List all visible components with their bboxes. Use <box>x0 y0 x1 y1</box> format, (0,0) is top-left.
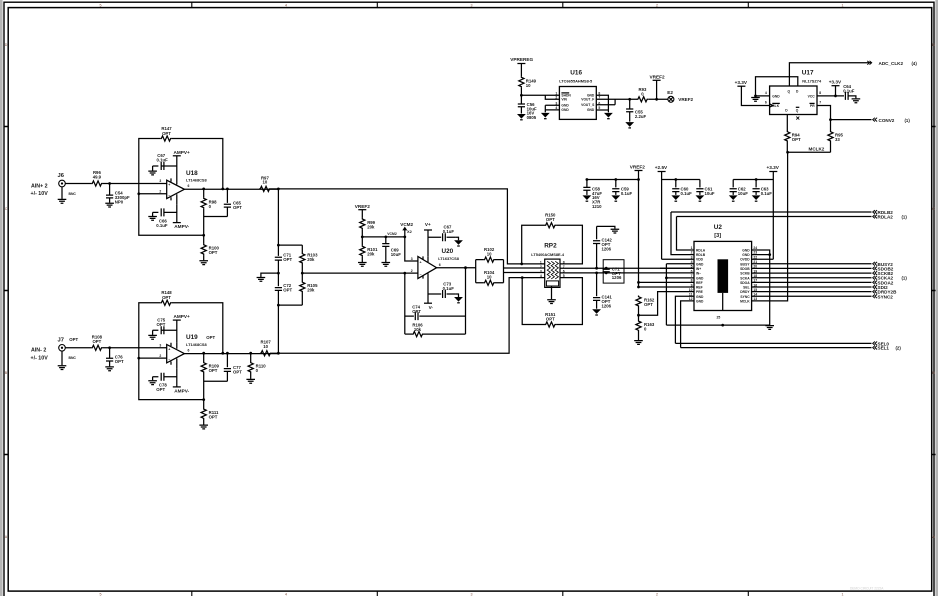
svg-text:4: 4 <box>765 91 767 95</box>
wire U2 pin12 SEL1 <box>681 301 694 348</box>
ground at C62 <box>729 195 738 200</box>
svg-text:IN−: IN− <box>696 272 701 276</box>
wire C63 stem <box>755 180 757 188</box>
svg-text:+/- 10V: +/- 10V <box>31 191 49 197</box>
svg-text:1206: 1206 <box>612 275 622 280</box>
junction VREF2 rail <box>637 178 640 181</box>
svg-text:[3]: [3] <box>714 233 721 239</box>
junction C59 <box>614 178 617 181</box>
wire C78 ground stem <box>152 377 154 381</box>
svg-text:AIN- 2: AIN- 2 <box>31 348 46 354</box>
ground at RP2 pad <box>547 300 556 304</box>
wire VPREREG to R149 <box>520 64 522 77</box>
junction R98 top <box>202 188 205 191</box>
svg-text:20k: 20k <box>307 257 315 262</box>
wire U2 gnd rail <box>666 324 769 326</box>
ground at C55 <box>625 122 634 127</box>
svg-text:D: D <box>5 43 8 47</box>
wire J7 to R108 <box>65 347 91 349</box>
svg-text:BUSY: BUSY <box>740 262 750 266</box>
svg-text:3: 3 <box>411 257 413 261</box>
svg-text:0.1uF: 0.1uF <box>761 191 773 196</box>
svg-text:25: 25 <box>717 315 721 319</box>
svg-text:GND: GND <box>561 104 569 108</box>
junction R100 top <box>202 234 205 237</box>
wire U2 pin24 GND <box>752 250 770 325</box>
resistor R106 <box>412 322 424 336</box>
svg-text:MCLK2: MCLK2 <box>809 147 825 152</box>
junction U19 -input feedback <box>137 357 140 360</box>
junction U20 fb right <box>464 266 467 269</box>
resistor R111 <box>201 408 219 420</box>
svg-text:10: 10 <box>263 344 268 349</box>
net arrow SCKA2 <box>873 276 877 280</box>
svg-text:OPT: OPT <box>792 137 801 142</box>
svg-text:SYNC2: SYNC2 <box>878 294 894 299</box>
svg-text:GND: GND <box>696 262 704 266</box>
wire U2 pin5 IN+ <box>660 267 694 269</box>
wire U2 pin23 GND <box>752 254 770 256</box>
svg-text:V+: V+ <box>425 222 431 227</box>
junction C58 <box>586 178 589 181</box>
wire R100 ground stem <box>203 255 205 260</box>
wire +3.3V rail <box>733 172 773 260</box>
wire C63 gnd stem <box>755 192 757 195</box>
wire C74 row <box>405 315 466 317</box>
svg-text:10uF: 10uF <box>738 191 748 196</box>
svg-text:U18: U18 <box>186 170 198 177</box>
wire R105 top <box>301 273 303 281</box>
junction C71 bottom <box>605 272 608 275</box>
svg-text:(1): (1) <box>902 215 908 220</box>
net arrow ADC_CLK2 <box>867 61 871 65</box>
svg-text:CLK: CLK <box>772 104 779 108</box>
junction cap mid ground <box>277 272 280 275</box>
wire U18 output <box>184 188 278 190</box>
wire C54 to ground <box>109 198 111 203</box>
svg-text:5: 5 <box>100 593 102 596</box>
svg-text:CONV2: CONV2 <box>879 118 895 123</box>
svg-text:0805: 0805 <box>527 115 537 120</box>
wire R109 top <box>203 353 205 361</box>
svg-text:LTC6655AHMS8-5: LTC6655AHMS8-5 <box>559 78 593 83</box>
svg-text:SCKB: SCKB <box>740 272 750 276</box>
border zone ticks top <box>192 2 749 7</box>
wire C142 bottom <box>596 244 598 269</box>
net SCKA2 line <box>752 277 872 279</box>
svg-text:OPT: OPT <box>209 250 218 255</box>
resistor R109 <box>201 362 219 374</box>
svg-text:GND: GND <box>742 248 750 252</box>
junction C142 on IN+ <box>595 267 598 270</box>
resistor R102 <box>483 247 495 262</box>
junction RP2 pin1 loop <box>520 263 523 266</box>
capacitor C142 <box>593 238 612 252</box>
svg-text:7: 7 <box>819 101 821 105</box>
svg-text:GND: GND <box>742 253 750 257</box>
ground at C63 <box>752 195 761 200</box>
svg-text:2: 2 <box>656 593 658 596</box>
capacitor C76 <box>106 355 124 364</box>
svg-text:GND: GND <box>587 108 595 112</box>
capacitor C64 <box>843 84 855 100</box>
junction R147 to output <box>221 188 224 191</box>
junction C54 tap <box>108 182 111 185</box>
power +3.3V at CLK <box>735 80 748 86</box>
svg-text:10uF: 10uF <box>705 191 715 196</box>
net AMPV- U19 <box>173 386 181 388</box>
ground at C67 <box>148 171 157 175</box>
page edge shading right <box>935 0 938 596</box>
junction R111 top <box>202 398 205 401</box>
op-amp U18 <box>159 170 207 205</box>
wire U2 pin9 REF <box>639 286 695 288</box>
svg-text:AMPV-: AMPV- <box>174 389 189 394</box>
junction pin23 gnd <box>768 253 771 256</box>
svg-text:OPT: OPT <box>92 339 101 344</box>
svg-text:RP2: RP2 <box>544 242 557 249</box>
svg-text:GND: GND <box>696 295 704 299</box>
resistor R94 <box>785 131 801 143</box>
wire U16 gnd pins <box>545 105 559 112</box>
junction MCLK2 <box>786 151 789 154</box>
wire R162 to R163 <box>638 307 640 320</box>
ground at R163 <box>634 341 643 345</box>
wire U19 output <box>184 353 278 355</box>
svg-text:OPT: OPT <box>162 295 171 300</box>
wire C60 gnd stem <box>675 192 677 195</box>
wire RP2 pin7 out <box>560 267 694 269</box>
svg-text:10k: 10k <box>414 327 422 332</box>
wire +2.5V rail <box>662 172 700 260</box>
ground at U2 <box>765 326 774 330</box>
svg-text:3: 3 <box>159 179 161 183</box>
resistor R147 <box>160 126 172 141</box>
svg-text:GND: GND <box>696 300 704 304</box>
wire R100 top <box>203 235 205 243</box>
svg-text:SCKA: SCKA <box>740 276 750 280</box>
capacitor C78 <box>156 373 167 392</box>
svg-text:Q: Q <box>796 109 799 113</box>
wire C72 bottom <box>277 290 279 305</box>
svg-text:VIN: VIN <box>561 98 567 102</box>
wire U2 pin10 PRE <box>639 292 695 316</box>
junction C55 tap <box>628 98 631 101</box>
wire C71 top <box>277 245 279 256</box>
svg-text:6: 6 <box>691 269 693 273</box>
wire AMPV- rail U19 <box>176 369 178 387</box>
ADC U2 <box>694 224 752 319</box>
wire C78 lead <box>153 376 177 378</box>
svg-text:0.1uF: 0.1uF <box>443 229 455 234</box>
svg-text:X2: X2 <box>407 229 413 234</box>
ground at J6 <box>58 199 67 203</box>
wire U2 pin3 VDD <box>662 258 694 260</box>
wire U16 vout <box>596 99 637 104</box>
net arrow SEL0 <box>873 342 877 346</box>
ground at C76 <box>105 367 114 371</box>
svg-text:10uF: 10uF <box>391 252 401 257</box>
ground at R110 <box>246 379 255 383</box>
svg-text:LT1468CS8: LT1468CS8 <box>186 178 208 183</box>
svg-text:2: 2 <box>411 269 413 273</box>
wire C56 stem <box>520 95 522 104</box>
ground at C142 <box>611 229 620 233</box>
capacitor C60 <box>672 186 692 195</box>
ground at C78 <box>148 381 157 385</box>
net arrow SCKB2 <box>873 271 877 275</box>
net V+ U20 <box>424 222 432 230</box>
wire C68 gnd stem <box>456 237 459 240</box>
wire U17 VCC <box>817 95 844 97</box>
wire to RP2 pin2 <box>504 267 545 269</box>
junction divider mid tap <box>301 272 304 275</box>
junction VCM2 stub <box>403 236 406 239</box>
junction U2 gnd pins <box>665 277 668 280</box>
svg-text:SDOA: SDOA <box>740 281 750 285</box>
junction VREF2 stub <box>655 98 658 101</box>
ground at C59 <box>611 195 620 200</box>
wire VCM2 to +input <box>405 237 418 261</box>
svg-text:4: 4 <box>555 106 557 110</box>
capacitor C59 <box>612 186 632 195</box>
svg-text:6: 6 <box>765 101 767 105</box>
svg-text:OPT: OPT <box>157 322 166 327</box>
wire U2 pin22 OVDD <box>752 258 774 260</box>
connector J7 <box>58 337 79 360</box>
junction PR node <box>829 118 832 121</box>
svg-text:VREF2: VREF2 <box>355 204 371 209</box>
wire C69 top <box>385 237 387 244</box>
svg-text:10: 10 <box>487 275 492 280</box>
svg-text:SDOB: SDOB <box>740 267 750 271</box>
net VREF2 at divider <box>355 204 371 210</box>
svg-text:+3.3V: +3.3V <box>767 165 780 170</box>
wire mid tap to U20 -input <box>302 272 418 274</box>
svg-text:D: D <box>932 43 935 47</box>
ground at C141 <box>592 309 601 314</box>
wire to RP2 pin3 <box>504 272 545 274</box>
ground at C54 <box>105 203 114 207</box>
wire U17 Q to ADC_CLK2 <box>789 63 871 86</box>
capacitor C72 <box>275 283 293 293</box>
wire U17 pin2 down <box>786 115 788 131</box>
svg-text:33: 33 <box>835 137 840 142</box>
svg-text:+3.3V: +3.3V <box>829 79 842 84</box>
capacitor C74 <box>412 304 421 320</box>
wire C77 top <box>226 353 228 367</box>
wire node to U16 pins <box>521 95 559 99</box>
svg-text:4: 4 <box>285 3 287 7</box>
wire U20 V+ stem <box>427 230 429 256</box>
ground at C64 <box>852 99 861 103</box>
wire R103 bottom <box>301 264 303 273</box>
svg-text:20k: 20k <box>367 252 375 257</box>
wire C61 gnd stem <box>699 192 701 195</box>
capacitor C67 <box>157 153 169 170</box>
svg-text:4: 4 <box>285 593 287 596</box>
svg-text:VREF2: VREF2 <box>630 165 646 170</box>
net BUSY2 line <box>752 263 872 265</box>
wire C55 gnd stem <box>629 112 631 122</box>
wire R110 ground stem <box>250 373 252 379</box>
svg-text:OPT: OPT <box>206 335 215 340</box>
junction U18 -input feedback <box>137 192 140 195</box>
wire C64 gnd lead <box>848 96 856 99</box>
resistor R108 <box>91 335 103 351</box>
ground at C56 <box>517 114 526 119</box>
svg-text:1210: 1210 <box>592 204 602 209</box>
net SEL1 line <box>681 347 872 349</box>
capacitor C61 <box>696 186 715 195</box>
wire R106 row right <box>424 333 466 335</box>
svg-text:SEL: SEL <box>743 286 749 290</box>
svg-text:OPT: OPT <box>162 131 171 136</box>
svg-text:−: − <box>420 273 422 277</box>
wire U20 fb right leg <box>465 268 467 334</box>
wire U18 feedback top right <box>172 139 223 189</box>
capacitor C68 <box>443 225 455 242</box>
net arrow BUSY2 <box>873 262 877 266</box>
svg-text:VOUT_S: VOUT_S <box>581 103 595 107</box>
wire R109 bottom rail <box>204 373 228 400</box>
capacitor C66 <box>156 208 168 227</box>
net arrow CONV2 <box>873 118 877 122</box>
capacitor C73 <box>443 281 455 298</box>
wire C76 to ground <box>109 361 111 366</box>
net VREF2 rail <box>630 165 646 171</box>
wire AMPV+ rail U19 <box>176 320 178 342</box>
capacitor C75 <box>157 318 166 335</box>
wire U18 -input <box>139 193 167 195</box>
ground at divider mid <box>257 278 266 282</box>
svg-text:−: − <box>168 194 170 198</box>
svg-text:OPT: OPT <box>233 205 242 210</box>
border zone ticks bottom <box>192 591 749 596</box>
svg-text:0.1uF: 0.1uF <box>443 286 455 291</box>
svg-text:OPT: OPT <box>412 309 421 314</box>
ground at U17 <box>751 98 760 102</box>
svg-text:2: 2 <box>656 3 658 7</box>
wire R99 to VCM2 node <box>361 229 363 237</box>
svg-text:U19: U19 <box>186 334 198 341</box>
wire U17 D loop <box>756 77 798 96</box>
svg-text:20k: 20k <box>367 224 375 229</box>
net arrow SEL1 <box>873 346 877 350</box>
svg-text:Q: Q <box>788 90 791 94</box>
svg-text:AMPV+: AMPV+ <box>174 150 191 155</box>
svg-text:RDLA: RDLA <box>696 248 706 252</box>
wire VREF2 vertical <box>638 171 640 288</box>
net V- U20 <box>424 302 432 304</box>
resistor R163 <box>636 320 655 332</box>
svg-text:2: 2 <box>159 190 161 194</box>
wire R98 top <box>203 189 205 197</box>
wire R98 bottom rail <box>204 209 228 236</box>
svg-text:RDLA2: RDLA2 <box>878 215 894 220</box>
svg-text:0.1uF: 0.1uF <box>157 158 169 163</box>
resistor R149 <box>519 76 537 88</box>
net RDLA2 line <box>677 216 872 218</box>
net VREF2 at U16 <box>650 74 666 80</box>
svg-text:6: 6 <box>439 263 441 267</box>
wire C56 gnd stem <box>520 107 522 114</box>
junction C69 tap <box>384 236 387 239</box>
svg-text:10: 10 <box>487 251 492 256</box>
wire C66 ground stem <box>152 212 154 216</box>
ground at U16 left <box>541 113 550 118</box>
flip-flop U17 <box>765 70 822 115</box>
svg-text:AIN+ 2: AIN+ 2 <box>31 183 48 189</box>
resistor R162 <box>636 296 655 308</box>
wire R108 to U19 +input <box>103 347 167 349</box>
ground at R100 <box>199 261 208 265</box>
svg-text:OPT: OPT <box>115 359 124 364</box>
junction C77 top <box>226 352 229 355</box>
ground at C61 <box>696 195 705 200</box>
wire U17 PR <box>817 106 831 120</box>
capacitor C56 <box>518 102 537 120</box>
junction C76 tap <box>108 346 111 349</box>
svg-text:AMPV-: AMPV- <box>174 224 189 229</box>
wire divider bottom rail <box>278 304 302 306</box>
wire C55 stem <box>629 99 631 109</box>
wire C69 ground stem <box>385 246 387 262</box>
junction C65 top <box>226 188 229 191</box>
wire C65 top <box>226 189 228 203</box>
net SYNC2 line <box>752 295 872 297</box>
power +3.3V at VCC <box>829 79 842 85</box>
resistor R99 <box>360 218 376 230</box>
svg-text:U2: U2 <box>714 224 723 231</box>
junction U19 output to divider <box>277 352 280 355</box>
op-amp U20 <box>411 248 460 279</box>
resistor R104 <box>483 270 495 285</box>
svg-text:+2.5V: +2.5V <box>655 165 668 170</box>
svg-text:10: 10 <box>263 180 268 185</box>
wire R110 top <box>250 353 252 361</box>
ground at C69 <box>382 263 391 267</box>
wire C67 lead <box>153 165 177 167</box>
junction REF pin9 <box>637 286 640 289</box>
svg-text:0.1uF: 0.1uF <box>681 191 693 196</box>
resistor R96 <box>91 170 103 186</box>
net stub VCM2 <box>400 222 413 237</box>
resistor R100 <box>201 244 219 256</box>
junction divider top <box>277 244 280 247</box>
wire U18 feedback top left <box>139 139 160 194</box>
svg-text:VCM2: VCM2 <box>400 222 413 227</box>
no-connect X at U17 <box>796 117 799 120</box>
wire VREF2 to R99 <box>361 210 363 218</box>
wire U19 feedback bottom <box>139 358 204 400</box>
svg-text:SEL1: SEL1 <box>878 346 890 351</box>
ground at U16 right <box>604 113 613 118</box>
wire U16 right gnd <box>596 95 608 112</box>
net VPREREG <box>510 57 533 63</box>
wire C142 stem <box>596 226 598 239</box>
wire R163 gnd stem <box>638 331 640 340</box>
junction REF pin8 <box>637 281 640 284</box>
wire R101 ground stem <box>361 257 363 262</box>
net AMPV- <box>173 222 181 224</box>
net SDOB2 line <box>752 267 872 269</box>
svg-text:VCC: VCC <box>808 94 816 98</box>
wire U2 pin1 RDLA <box>677 217 695 251</box>
svg-text:1206: 1206 <box>602 246 612 251</box>
wire R101 top <box>361 237 363 245</box>
wire U18 feedback bottom <box>139 194 204 236</box>
